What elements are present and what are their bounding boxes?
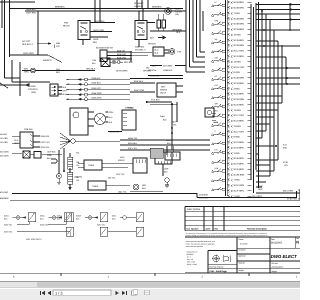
svg-text:14RB BLK: 14RB BLK (150, 75, 160, 78)
svg-text:4: 4 (228, 115, 229, 118)
svg-text:5C3A BRN: 5C3A BRN (234, 28, 245, 31)
svg-text:16G9 BLK: 16G9 BLK (26, 8, 36, 11)
svg-text:7: 7 (228, 180, 229, 183)
svg-text:8: 8 (228, 137, 229, 140)
svg-text:A38A RED: A38A RED (135, 46, 145, 49)
svg-text:5C12 ORG: 5C12 ORG (234, 50, 245, 53)
svg-text:6: 6 (228, 126, 229, 129)
svg-text:A/C OPT: A/C OPT (22, 40, 31, 43)
svg-text:8/31/2005: 8/31/2005 (271, 242, 283, 245)
svg-text:G. Amos: G. Amos (240, 243, 247, 246)
svg-text:2: 2 (228, 8, 229, 11)
svg-text:1 / 3: 1 / 3 (55, 290, 63, 295)
svg-text:16GG ORG: 16GG ORG (93, 29, 104, 32)
svg-text:18-P: 18-P (176, 31, 181, 34)
svg-text:16GE: 16GE (93, 38, 99, 41)
svg-text:SEE SHT 4: SEE SHT 4 (22, 43, 34, 46)
svg-text:5C26 BRN: 5C26 BRN (234, 103, 245, 106)
svg-text:34SJ YEL: 34SJ YEL (97, 223, 105, 226)
svg-text:5C12 ORG: 5C12 ORG (234, 130, 245, 133)
svg-text:WPB: WPB (128, 107, 133, 110)
svg-text:1: 1 (228, 99, 229, 102)
svg-text:20AD YEL: 20AD YEL (41, 146, 51, 149)
svg-text:62AA ORN: 62AA ORN (92, 97, 102, 100)
svg-text:REAR: REAR (175, 8, 181, 11)
svg-text:5C36 BRN: 5C36 BRN (234, 1, 245, 4)
svg-text:ORC BLK: ORC BLK (86, 67, 96, 70)
svg-text:16GA ORG: 16GA ORG (23, 52, 34, 55)
svg-text:DER: DER (142, 184, 147, 187)
svg-text:20AN YEL: 20AN YEL (41, 135, 51, 138)
svg-text:YEL: YEL (76, 179, 79, 182)
svg-text:7: 7 (228, 35, 229, 38)
svg-text:5C24 BRN: 5C24 BRN (234, 163, 245, 166)
svg-text:8: 8 (228, 185, 229, 188)
svg-text:5C1E BRN: 5C1E BRN (234, 184, 245, 187)
svg-text:62AB ORG: 62AB ORG (92, 92, 102, 95)
svg-text:13 RED: 13 RED (234, 60, 242, 63)
svg-text:9: 9 (228, 94, 229, 97)
svg-text:A0RGCO: A0RGCO (43, 59, 52, 62)
svg-text:Date: Date (271, 238, 275, 241)
svg-text:5C25 BRN: 5C25 BRN (234, 93, 245, 96)
svg-text:16G7 RED: 16G7 RED (26, 11, 37, 14)
svg-text:5C2R BRN: 5C2R BRN (199, 196, 209, 199)
svg-text:WH ORG 2+: WH ORG 2+ (135, 48, 147, 51)
svg-text:6: 6 (228, 175, 229, 178)
svg-text:5C24 BRN: 5C24 BRN (234, 55, 245, 58)
svg-text:GRN: GRN (109, 111, 114, 114)
svg-text:Approval: Approval (239, 254, 246, 257)
svg-text:62A9 BLK: 62A9 BLK (92, 77, 102, 80)
svg-text:RD seal: RD seal (272, 262, 279, 265)
svg-text:6: 6 (228, 29, 229, 32)
svg-text:BOB ORG: BOB ORG (117, 53, 126, 56)
svg-text:3 RED: 3 RED (234, 87, 241, 90)
svg-text:DWG ELECT: DWG ELECT (271, 254, 297, 259)
svg-text:164C YEL: 164C YEL (118, 190, 128, 193)
svg-text:34SF YEL: 34SF YEL (4, 223, 12, 226)
svg-text:BLK: BLK (56, 71, 61, 74)
svg-text:5C34 BRN: 5C34 BRN (234, 146, 245, 149)
svg-text:62AC ORG: 62AC ORG (134, 89, 145, 92)
svg-text:8: 8 (228, 40, 229, 43)
svg-text:2: 2 (228, 105, 229, 108)
svg-text:.XXX ± .005: .XXX ± .005 (187, 261, 196, 264)
svg-text:34SH YEL: 34SH YEL (4, 230, 12, 233)
svg-text:ORG: ORG (14, 142, 19, 145)
svg-text:RELAY: RELAY (63, 25, 70, 28)
svg-text:02G ORN: 02G ORN (0, 151, 9, 154)
svg-text:MID: MID (152, 64, 156, 67)
svg-text:3: 3 (228, 159, 229, 162)
svg-text:5C4C: 5C4C (258, 185, 264, 188)
svg-text:3: 3 (228, 62, 229, 65)
svg-text:VALVE: VALVE (160, 92, 167, 95)
svg-text:5C26 BRN: 5C26 BRN (234, 168, 245, 171)
svg-text:5: 5 (228, 72, 229, 75)
svg-text:A0B: A0B (56, 42, 60, 45)
svg-text:2: 2 (228, 153, 229, 156)
svg-text:5C23 BRN: 5C23 BRN (234, 141, 245, 144)
svg-text:EXFL YEL: EXFL YEL (128, 147, 138, 150)
svg-text:VIO: VIO (284, 164, 288, 167)
svg-text:9 G4: 9 G4 (283, 144, 287, 147)
svg-text:5C2F BRN: 5C2F BRN (234, 190, 245, 193)
svg-text:14RB BLK: 14RB BLK (163, 69, 173, 72)
svg-text:24 IP: 24 IP (172, 121, 177, 124)
svg-text:5: 5 (228, 121, 229, 124)
svg-text:5C2B BRN: 5C2B BRN (234, 44, 245, 47)
svg-text:6F16 YEL: 6F16 YEL (110, 131, 120, 134)
svg-text:CRB GIN: CRB GIN (24, 128, 33, 131)
svg-text:8: 8 (228, 89, 229, 92)
svg-text:Material: Material (239, 261, 246, 264)
svg-text:9: 9 (228, 142, 229, 145)
svg-text:5C35 BRN: 5C35 BRN (234, 157, 245, 160)
svg-text:24SW: 24SW (76, 214, 81, 217)
svg-text:OG ORN: OG ORN (0, 141, 8, 144)
svg-text:FRONT: FRONT (118, 159, 125, 162)
svg-text:EXFC YEL: EXFC YEL (41, 141, 51, 144)
svg-text:DECIMAL: DECIMAL (187, 253, 194, 256)
svg-text:4: 4 (228, 67, 229, 70)
svg-text:B RED: B RED (234, 71, 241, 74)
svg-text:13 RED: 13 RED (234, 109, 242, 112)
svg-text:16A: 16A (56, 68, 60, 71)
svg-text:13 RED: 13 RED (234, 125, 242, 128)
svg-text:OPTICAL: OPTICAL (148, 69, 157, 72)
svg-text:Drawn: Drawn (239, 238, 244, 241)
svg-text:4: 4 (228, 19, 229, 22)
svg-text:(10K): (10K) (31, 91, 36, 94)
svg-text:3: 3 (228, 110, 229, 113)
svg-text:5C4B BRN: 5C4B BRN (234, 7, 245, 10)
svg-text:LRJ: LRJ (215, 148, 218, 151)
svg-text:66SA BLK: 66SA BLK (128, 142, 138, 145)
svg-text:5C2H BRN: 5C2H BRN (234, 98, 245, 101)
svg-text:24SL: 24SL (112, 214, 116, 217)
svg-text:102B YEL: 102B YEL (74, 176, 84, 179)
svg-text:3 RED: 3 RED (234, 152, 241, 155)
svg-text:Checked: Checked (239, 249, 246, 252)
svg-text:5C2B BRN: 5C2B BRN (234, 77, 245, 80)
svg-text:62AD VIO: 62AD VIO (92, 87, 101, 90)
svg-text:Weight: Weight (239, 269, 245, 272)
svg-text:.X ± .1: .X ± .1 (187, 256, 192, 259)
svg-text:5C24 BRN: 5C24 BRN (234, 120, 245, 123)
svg-text:asterisk/caution: asterisk/caution (272, 265, 284, 268)
svg-text:5C34 BRN: 5C34 BRN (234, 82, 245, 85)
svg-text:.XX ± .03: .XX ± .03 (187, 258, 194, 261)
svg-text:16GF RED: 16GF RED (94, 20, 105, 23)
svg-text:ORG: ORG (258, 188, 263, 191)
svg-text:24SU: 24SU (4, 214, 9, 217)
svg-text:BLK: BLK (150, 36, 154, 39)
svg-text:WPB: WPB (47, 154, 52, 157)
svg-text:BOB ORG: BOB ORG (117, 56, 126, 59)
svg-text:N: N (296, 240, 299, 244)
svg-text:GRN/WHT: GRN/WHT (134, 2, 144, 5)
svg-text:16067-002006: 16067-002006 (187, 208, 201, 211)
svg-text:7: 7 (228, 83, 229, 86)
svg-text:Revision Description: Revision Description (247, 228, 267, 231)
svg-text:4273 BRN: 4273 BRN (163, 64, 173, 67)
svg-text:BIRGRED: BIRGRED (55, 6, 65, 9)
svg-text:Y RED: Y RED (234, 12, 241, 15)
svg-text:3: 3 (228, 13, 229, 16)
svg-text:BOB VIO: BOB VIO (117, 49, 125, 52)
svg-text:BLU: BLU (109, 116, 113, 119)
svg-text:5: 5 (228, 24, 229, 27)
svg-text:62AF BLK: 62AF BLK (134, 80, 144, 83)
svg-text:BLOWER FAN SW: BLOWER FAN SW (96, 47, 113, 50)
svg-text:1: 1 (228, 148, 229, 151)
svg-text:TIMER: TIMER (88, 164, 95, 167)
svg-text:4RB BRN: 4RB BRN (0, 197, 9, 200)
svg-text:13 RED: 13 RED (234, 33, 242, 36)
svg-text:5C3B BRN: 5C3B BRN (234, 23, 245, 26)
svg-text:B RED: B RED (234, 136, 241, 139)
svg-text:122C YEL: 122C YEL (116, 173, 126, 176)
svg-text:4T3D: 4T3D (283, 161, 288, 164)
svg-text:BGL BLK: BGL BLK (124, 61, 133, 64)
svg-text:OPTION: OPTION (148, 43, 156, 46)
svg-text:5: 5 (228, 169, 229, 172)
svg-text:AETR WRG: AETR WRG (116, 70, 128, 73)
svg-text:4A ORG: 4A ORG (0, 133, 7, 136)
svg-text:34SG YEL: 34SG YEL (40, 223, 49, 226)
svg-text:BLU: BLU (155, 49, 159, 52)
svg-text:FAN: FAN (64, 22, 69, 25)
svg-text:24SV: 24SV (57, 214, 62, 217)
svg-text:220A: 220A (166, 139, 171, 142)
svg-text:WATER: WATER (160, 89, 168, 92)
svg-text:02G ORN: 02G ORN (0, 155, 9, 158)
svg-text:9: 9 (228, 46, 229, 49)
svg-text:OG ORN: OG ORN (0, 137, 8, 140)
svg-text:CONTROL: CONTROL (28, 88, 39, 91)
svg-text:26E YEL: 26E YEL (108, 177, 116, 180)
svg-text:4T11 BLK: 4T11 BLK (151, 99, 160, 102)
svg-text:4: 4 (228, 164, 229, 167)
svg-text:Y RED: Y RED (234, 179, 241, 182)
svg-text:5C2B BRN: 5C2B BRN (234, 17, 245, 20)
svg-text:5C2M BRN: 5C2M BRN (234, 173, 245, 176)
svg-text:7: 7 (228, 132, 229, 135)
svg-text:2x4m: 2x4m (160, 115, 165, 118)
svg-text:YEL: YEL (76, 164, 79, 167)
svg-text:ANGULAR ± 1°: ANGULAR ± 1° (187, 250, 198, 253)
svg-text:HYD. KICK OUTS: HYD. KICK OUTS (26, 238, 42, 241)
svg-text:E.O. Number: E.O. Number (187, 228, 199, 231)
svg-text:561C ORG: 561C ORG (283, 190, 293, 193)
svg-text:102P BLK: 102P BLK (47, 150, 56, 153)
svg-text:66AW YEL: 66AW YEL (128, 137, 138, 140)
svg-text:IGN: IGN (24, 67, 28, 70)
svg-text:1: 1 (228, 51, 229, 54)
svg-text:Weight: Weight (272, 270, 278, 273)
svg-text:ASM: ASM (120, 156, 125, 159)
svg-text:VIO: VIO (56, 45, 60, 48)
svg-text:6: 6 (228, 78, 229, 81)
svg-text:BIRGRED: BIRGRED (152, 6, 162, 9)
svg-text:5C35 BRN: 5C35 BRN (234, 39, 245, 42)
svg-text:BLK: BLK (93, 41, 98, 44)
svg-text:TVG: TVG (177, 50, 182, 53)
svg-text:5C2B BRN: 5C2B BRN (199, 193, 209, 196)
svg-text:.XXXX ± .0005: .XXXX ± .0005 (187, 263, 198, 266)
svg-text:(18): (18) (175, 13, 179, 16)
svg-text:9: 9 (228, 191, 229, 194)
svg-text:24SU: 24SU (40, 214, 45, 217)
svg-text:TIMER: TIMER (92, 185, 99, 188)
svg-text:2: 2 (228, 56, 229, 59)
svg-text:62AE BLK: 62AE BLK (92, 82, 102, 85)
svg-text:LDWN KIT: LDWN KIT (134, 5, 144, 8)
svg-text:5C12 ORG: 5C12 ORG (234, 114, 245, 117)
svg-text:(M): (M) (215, 38, 218, 41)
svg-text:5C1D ORG: 5C1D ORG (234, 66, 245, 69)
svg-text:1: 1 (228, 3, 229, 6)
svg-text:4TA ORG: 4TA ORG (0, 191, 9, 194)
svg-text:TEMP: TEMP (30, 85, 36, 88)
